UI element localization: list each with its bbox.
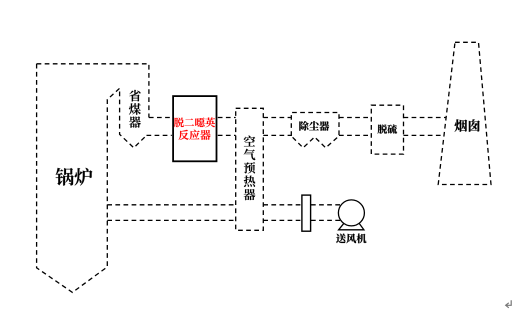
air duct lower line: damper box to fan <box>311 219 341 221</box>
flue duct lower line: economizer hopper to reactor <box>147 134 172 136</box>
text yancong (chimney label) <box>455 119 480 132</box>
fan base trapezoid <box>339 223 364 229</box>
flue duct upper line: preheater to dust collector <box>263 117 291 119</box>
air duct lower line: preheater to damper box <box>263 219 301 221</box>
flue duct upper line: dust collector to desulfurizer <box>339 117 371 119</box>
text reactor line2 (red) <box>179 130 211 140</box>
text tuoliu (desulfurizer label) <box>378 124 397 133</box>
text guolu (boiler label) <box>56 168 93 186</box>
air preheater box (dashed) <box>236 108 264 230</box>
flue duct lower line: preheater to dust collector <box>263 134 291 136</box>
text chuchenqi (dust collector label) <box>299 121 329 131</box>
dust collector outline with double hopper <box>291 113 339 148</box>
chimney outline (dashed trapezoid) <box>438 42 491 184</box>
text shengmeiqi (economizer label) <box>129 90 141 128</box>
text songfengji (fan label) <box>336 234 366 244</box>
text air preheater label <box>244 136 256 201</box>
air duct lower line: boiler wall to preheater <box>107 219 235 221</box>
air duct upper line: damper box to fan <box>311 204 341 206</box>
text reactor line1 (red) <box>174 118 215 128</box>
flue duct lower line: reactor to air preheater <box>218 134 236 136</box>
desulfurizer box (dashed) <box>371 105 403 154</box>
paragraph return mark (gray) <box>506 300 512 308</box>
boiler outline (dashed) <box>37 64 149 293</box>
air duct upper line: boiler wall to preheater <box>107 204 235 206</box>
forced draft fan circle <box>338 200 364 226</box>
air duct upper line: preheater to damper box <box>263 204 301 206</box>
dioxin reactor box (solid) <box>173 96 216 161</box>
flue duct upper line: boiler to reactor <box>149 117 172 119</box>
flue duct lower line: dust collector to desulfurizer <box>339 134 371 136</box>
flue duct upper line: desulfurizer to chimney <box>404 117 447 119</box>
fan damper rectangle (solid) <box>302 195 311 231</box>
flue duct upper line: reactor to air preheater <box>218 117 236 119</box>
flue duct lower line: desulfurizer to chimney <box>404 134 445 136</box>
